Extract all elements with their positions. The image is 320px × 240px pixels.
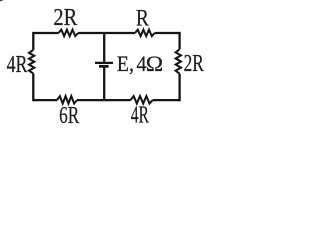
svg-text:R: R: [136, 6, 149, 32]
svg-text:4R: 4R: [7, 52, 29, 78]
svg-text:E,: E,: [117, 51, 134, 76]
svg-text:6R: 6R: [59, 102, 80, 126]
svg-text:4R: 4R: [131, 102, 149, 126]
svg-text:2R: 2R: [184, 50, 205, 77]
svg-text:2R: 2R: [53, 5, 77, 31]
svg-text:Ω: Ω: [146, 51, 163, 76]
